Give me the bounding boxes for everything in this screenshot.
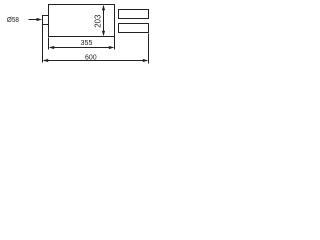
outlet pipe top — [119, 10, 149, 19]
background — [0, 0, 150, 75]
extension line body-left for 355 — [48, 38, 50, 50]
svg-text:600: 600 — [85, 52, 97, 61]
muffler body — [49, 5, 115, 37]
extension line inlet-left for 600 — [42, 25, 44, 63]
outlet pipe bottom — [119, 24, 149, 33]
svg-text:Ø58: Ø58 — [7, 15, 19, 24]
svg-text:203: 203 — [94, 14, 103, 28]
inlet pipe — [43, 16, 49, 25]
extension line body-right for 355 — [114, 37, 116, 50]
svg-text:355: 355 — [81, 38, 93, 47]
dimension 600 line — [43, 59, 149, 62]
dimension 203 line — [102, 5, 105, 37]
extension line outlet-right for 600 — [148, 34, 150, 64]
dimension 355 line — [49, 46, 115, 49]
leader arrow to inlet — [29, 18, 43, 21]
